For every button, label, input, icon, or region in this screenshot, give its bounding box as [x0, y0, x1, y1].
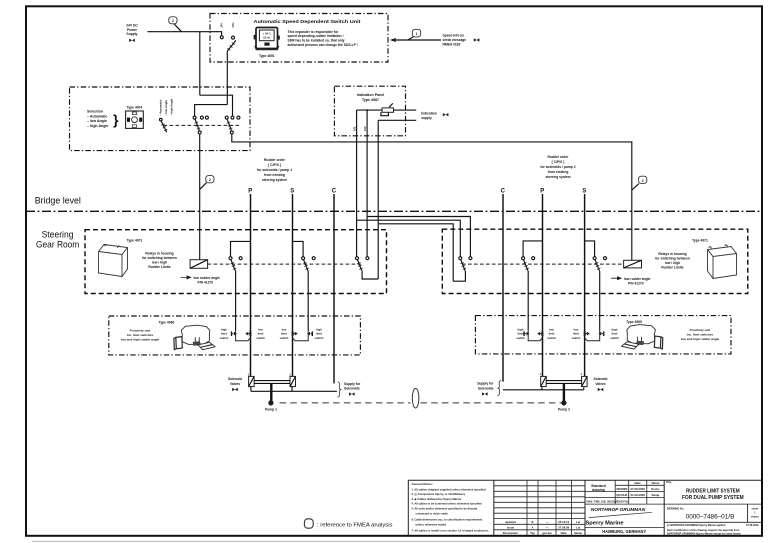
selection bus wire A: [200, 95, 233, 116]
svg-text:NORTHROP GRUMMAN: NORTHROP GRUMMAN: [591, 507, 646, 512]
svg-text:low rudder angle: low rudder angle: [194, 276, 221, 280]
svg-text:for solenoids / pump 2: for solenoids / pump 2: [540, 165, 575, 169]
relay coil K1: [190, 260, 208, 269]
svg-text:DRAWN: DRAWN: [616, 487, 627, 491]
svg-text:Type 4971: Type 4971: [692, 238, 708, 242]
steering gear room label: [36, 230, 80, 250]
svg-text:low / high: low / high: [665, 261, 680, 265]
svg-text:switch: switch: [256, 336, 265, 340]
svg-text:P: P: [540, 188, 544, 194]
svg-text:12.4o: 12.4o: [263, 35, 270, 39]
svg-text:low rudder angle: low rudder angle: [624, 277, 651, 281]
selection mode label: [87, 109, 119, 128]
supply for solenoids label (stbd): [477, 380, 501, 396]
svg-text:NORTHROP GRUMMAN Sperry Marine: NORTHROP GRUMMAN Sperry Marine except as…: [667, 532, 741, 535]
svg-text:0000–7486–01/B: 0000–7486–01/B: [686, 514, 735, 521]
indication supply label: [421, 111, 448, 120]
svg-text:speed depending rudder limitat: speed depending rudder limitation !: [288, 34, 344, 38]
relay contact A (port P): [229, 241, 251, 271]
svg-text:Rudder order: Rudder order: [548, 155, 570, 159]
FMEA reference note: [304, 519, 392, 529]
limit switch contact pair low limit (pump2 S): [584, 331, 605, 341]
svg-text:unless otherwise stated: unless otherwise stated: [416, 522, 447, 526]
svg-text:sheets: sheets: [751, 516, 760, 519]
wire junction to selection switch bus: [199, 32, 201, 95]
selection unit dashed enclosure: [70, 87, 251, 151]
wire panel branch b1 to stbd room: [367, 217, 470, 257]
svg-text:Rudder order: Rudder order: [264, 158, 286, 162]
wire S pump2: [584, 194, 586, 376]
wire indication supply return: [378, 119, 416, 121]
wire lamp to indication supply: [394, 109, 417, 111]
svg-text:Lie: Lie: [576, 520, 580, 524]
svg-text:A: A: [531, 525, 533, 529]
wire selector sw2 to relay K2: [232, 134, 632, 260]
svg-text:from existing: from existing: [548, 170, 569, 174]
svg-text:Valves: Valves: [230, 382, 240, 386]
24V DC power supply source label: [126, 24, 138, 42]
svg-text:Bridge level: Bridge level: [35, 196, 81, 207]
svg-text:switch: switch: [315, 336, 324, 340]
selector rotary contact: [160, 118, 168, 132]
wire panel riser 3: [377, 120, 379, 279]
pump 1: [265, 400, 277, 411]
svg-text:27.08.2009: 27.08.2009: [746, 524, 759, 527]
low rudder angle note (stbd): [611, 277, 651, 286]
wire contact B' to limit switch: [527, 271, 529, 331]
svg-text:P/N 41270: P/N 41270: [198, 281, 214, 285]
wire contact A to limit switch: [235, 271, 237, 331]
wire C pump2: [502, 194, 504, 382]
wire panel riser 2: [366, 110, 368, 257]
svg-text:}: }: [113, 112, 119, 128]
svg-text:Lie: Lie: [576, 525, 580, 529]
node callout 2 (supply wire): [169, 17, 182, 32]
svg-text:1: 1: [416, 32, 418, 36]
svg-text:Samp: Samp: [651, 493, 659, 497]
svg-text:SDR has to be installed so, th: SDR has to be installed so, that only: [288, 39, 345, 43]
general notes: [412, 482, 489, 533]
svg-text:drawing: drawing: [592, 488, 605, 492]
svg-text:authorized persons can change: authorized persons can change the SDS-LP…: [288, 43, 358, 47]
svg-text:from existing: from existing: [264, 173, 285, 177]
svg-text:[ C/P/S ]: [ C/P/S ]: [268, 163, 281, 167]
relay housing icon Type 4971 (port): [99, 239, 143, 277]
svg-text:NMEA 0183: NMEA 0183: [443, 43, 461, 47]
svg-text:Solenoids: Solenoids: [344, 387, 360, 391]
svg-text:Relays in housing: Relays in housing: [658, 252, 686, 256]
svg-text:—: —: [546, 520, 549, 524]
svg-text:Issue: Issue: [507, 525, 515, 529]
wire C pump1: [333, 194, 335, 383]
svg-text:5. All units and/or otherwise: 5. All units and/or otherwise specified …: [412, 507, 478, 511]
standard drawing cells: [585, 480, 762, 527]
svg-text:7. All cables to install cros: 7. All cables to install cross section 1…: [412, 529, 489, 533]
svg-text:—: —: [546, 525, 549, 529]
wire 24V supply to ASDSU: [148, 32, 222, 36]
svg-text:01.09.2009: 01.09.2009: [630, 493, 645, 497]
svg-text:Name: Name: [574, 531, 582, 535]
svg-text:updated: updated: [505, 520, 516, 524]
wire solenoid supply bus (pump1): [251, 387, 337, 392]
indication panel title: [357, 93, 385, 102]
svg-text:Type 4969: Type 4969: [626, 320, 642, 324]
rudder order pump1 label: [257, 158, 292, 182]
svg-text:Pump 2: Pump 2: [558, 408, 570, 412]
svg-text:Relays in housing: Relays in housing: [145, 252, 173, 256]
svg-text:Indication Panel: Indication Panel: [357, 93, 385, 97]
svg-text:2. ◫ Components Sperry, or: 2. ◫ Components Sperry, or Yard/Delivery: [412, 492, 466, 496]
rudder order pump2 label: [540, 155, 575, 179]
svg-text:Indication: Indication: [421, 111, 437, 115]
svg-text:Proximity unit: Proximity unit: [130, 328, 151, 332]
svg-text:C: C: [501, 188, 506, 194]
solenoid valve V4 (pump2 stbd): [581, 372, 587, 386]
svg-text:27.08.09: 27.08.09: [558, 525, 569, 529]
svg-text:Pump 1: Pump 1: [265, 408, 277, 412]
svg-text:– low Angle: – low Angle: [164, 100, 168, 116]
svg-text:101: 101: [353, 126, 357, 131]
selector head icon Type 4974: [126, 105, 144, 128]
svg-text:for switching between: for switching between: [655, 257, 690, 261]
node junction dot: [366, 109, 368, 111]
svg-text:Description: Description: [503, 531, 519, 535]
revision table: [494, 480, 585, 536]
relay housing icon Type 4971 (stbd): [692, 238, 736, 278]
svg-text:1: 1: [581, 372, 583, 376]
mechanical link K2 to contacts (stbd): [462, 263, 624, 265]
ASDSU input contact: [220, 36, 223, 39]
solenoid valve V1 (pump1 port): [248, 372, 255, 386]
svg-text:S: S: [290, 188, 294, 194]
supply for solenoids label (port): [338, 382, 361, 398]
steering room stbd enclosure: [442, 229, 748, 293]
svg-text:sheet: sheet: [752, 508, 759, 511]
selector switch contact 1: [193, 116, 208, 134]
relay contact B (port S): [293, 241, 316, 271]
svg-text:Typ: Typ: [530, 531, 535, 535]
proximity sensor icon (port): [174, 325, 215, 350]
steering room port enclosure: [85, 230, 387, 294]
svg-text:Type 4969: Type 4969: [159, 321, 175, 325]
wire panel riser 1: [356, 110, 358, 257]
wire P pump1: [250, 194, 252, 376]
svg-text:switch: switch: [220, 336, 229, 340]
speed info callout arrow: [390, 38, 441, 42]
svg-text:2: 2: [209, 178, 211, 182]
indication panel dashed enclosure: [334, 86, 405, 136]
relay housing note (port): [142, 252, 177, 270]
panel wire labels (vertical): [353, 126, 368, 131]
ASDSU note text: [288, 30, 358, 47]
svg-text:QC/CHK: QC/CHK: [616, 493, 628, 497]
svg-text:B: B: [531, 520, 533, 524]
svg-text:Type 4987: Type 4987: [362, 98, 379, 102]
svg-text:Supply: Supply: [127, 32, 138, 36]
selector switch contact 2: [225, 116, 240, 134]
pump 2: [558, 400, 570, 411]
svg-text:Name: Name: [651, 481, 659, 485]
svg-text:switch: switch: [280, 336, 289, 340]
revision table entries: [503, 520, 583, 535]
mechanical link K1 to contacts (port): [208, 263, 361, 265]
wire panel branch b3 to stbd room: [378, 224, 453, 281]
svg-text:RUDDER LIMIT SYSTEM: RUDDER LIMIT SYSTEM: [686, 488, 740, 494]
ASDSU terminal labels (vertical): [220, 22, 235, 27]
svg-text:1: 1: [289, 372, 291, 376]
svg-text:gez.am: gez.am: [542, 531, 552, 535]
solenoid valve V3 (pump2 port): [540, 372, 546, 386]
valve manifold pump1: [254, 381, 290, 384]
svg-text:Type 4971: Type 4971: [127, 239, 143, 243]
wire S pump1: [292, 194, 294, 376]
relay coil K2: [624, 260, 642, 268]
low rudder angle note (port): [181, 276, 221, 285]
svg-text:0000_7486_01B_002.DWG: 0000_7486_01B_002.DWG: [587, 499, 619, 503]
title block outline: [408, 480, 762, 536]
valve manifold pump2: [546, 381, 581, 384]
svg-text:Type 4691: Type 4691: [259, 54, 275, 58]
svg-text:Speed info as: Speed info as: [443, 33, 465, 37]
svg-text:2: 2: [642, 179, 644, 183]
svg-text:P/N 41270: P/N 41270: [628, 281, 644, 285]
solenoid valves label (stbd): [594, 377, 608, 391]
svg-text:switch: switch: [610, 336, 619, 340]
proximity unit note (stbd): [681, 328, 720, 341]
drawing title: [666, 480, 744, 501]
svg-text:HAMBURG, GERMANY: HAMBURG, GERMANY: [602, 529, 646, 535]
svg-text:Automatic Speed Dependent Swit: Automatic Speed Dependent Switch Unit: [254, 19, 361, 25]
proximity unit note (port): [121, 328, 160, 341]
wire contact A' to limit switch: [599, 271, 601, 331]
speed info label: [443, 33, 480, 46]
svg-text:C: C: [332, 188, 337, 194]
svg-text:– Automatic: – Automatic: [87, 114, 107, 118]
ASDSU switch contact (speed dependent): [227, 36, 236, 51]
svg-text:1. All cables shipyard suppli: 1. All cables shipyard supplied unless o…: [412, 487, 486, 491]
relay contact B' (stbd P): [522, 241, 543, 271]
svg-text:supply: supply: [421, 116, 432, 120]
svg-text:steering system: steering system: [262, 178, 287, 182]
svg-text:– high Angle: – high Angle: [87, 124, 108, 128]
limit switch contact pair high limit (pump1 P): [231, 331, 252, 341]
svg-text:CAD-File: CAD-File: [617, 499, 629, 503]
svg-text:Steering: Steering: [42, 230, 74, 240]
wire solenoid supply bus (pump2): [503, 387, 584, 390]
svg-text:Solenoid: Solenoid: [594, 377, 608, 381]
svg-text:Date: Date: [561, 531, 568, 535]
copyright note: [667, 523, 759, 535]
svg-text:4. All cables to be screened: 4. All cables to be screened unless othe…: [412, 502, 482, 506]
indicator lamp resistor element: [381, 103, 394, 115]
svg-text:Solenoids: Solenoids: [478, 386, 494, 390]
proximity unit stbd enclosure: [475, 316, 731, 354]
Northrop Grumman logotype: [586, 507, 653, 526]
solenoid valve V2 (pump1 stbd): [289, 372, 295, 386]
svg-text:FOR DUAL PUMP SYSTEM: FOR DUAL PUMP SYSTEM: [682, 495, 744, 501]
svg-text:for switching between: for switching between: [142, 256, 177, 260]
svg-text:24V: 24V: [220, 23, 224, 28]
svg-text:[ C/P/S ]: [ C/P/S ]: [552, 160, 565, 164]
coupling break ellipse: [412, 388, 419, 408]
drawing number cell: [664, 504, 762, 522]
ASDSU dashed enclosure: [210, 14, 388, 63]
svg-text:for solenoids / pump 1: for solenoids / pump 1: [257, 168, 292, 172]
svg-text:Ⓒ NORTHROP GRUMMAN Sperry Mar: Ⓒ NORTHROP GRUMMAN Sperry Marine applied: [667, 523, 726, 527]
bridge level divider: [26, 196, 762, 212]
svg-text:P: P: [248, 188, 252, 194]
svg-text:Sperry Marine: Sperry Marine: [586, 520, 624, 526]
svg-text:27.08.2009: 27.08.2009: [630, 487, 645, 491]
relay housing note (stbd): [655, 252, 690, 270]
svg-text:Krebs: Krebs: [651, 487, 660, 491]
svg-text:– low Angle: – low Angle: [87, 119, 107, 123]
svg-text:2: 2: [172, 19, 174, 23]
svg-text:inc. limit switches: inc. limit switches: [127, 333, 154, 337]
svg-text:6. Cable dimensions acc. to c: 6. Cable dimensions acc. to classificati…: [412, 518, 483, 522]
svg-text:Supply for: Supply for: [344, 382, 361, 386]
svg-text:serial message: serial message: [443, 38, 467, 42]
selector position labels (vertical): [159, 98, 174, 116]
solenoid valves label (port): [228, 377, 242, 391]
wire selector sw1 to relay K1: [199, 134, 201, 260]
svg-text:Title: Title: [666, 480, 672, 484]
svg-text:05.10.10: 05.10.10: [558, 520, 569, 524]
svg-text:– Automatic: – Automatic: [159, 99, 163, 116]
svg-text:low and high rudder angle: low and high rudder angle: [681, 337, 720, 341]
limit switch contact pair high limit (pump2 P): [523, 331, 543, 341]
node callout 1 (speed info): [408, 29, 421, 40]
svg-text:102: 102: [363, 126, 367, 131]
wire P pump2: [542, 194, 544, 376]
svg-text:24V-: 24V-: [231, 22, 235, 27]
relay contact C (port panel): [356, 257, 379, 279]
svg-text:connected to ship's earth: connected to ship's earth: [416, 511, 449, 515]
proximity unit port enclosure: [109, 316, 361, 355]
svg-text:Date: Date: [634, 481, 641, 485]
svg-text:low and high rudder angle: low and high rudder angle: [121, 338, 160, 342]
svg-text:Proximity unit: Proximity unit: [690, 328, 711, 332]
svg-text:General Notes:: General Notes:: [412, 482, 433, 486]
svg-text:inc. limit switches: inc. limit switches: [687, 333, 714, 337]
svg-text:low / high: low / high: [152, 261, 167, 265]
svg-text:switch: switch: [572, 336, 581, 340]
svg-text:This expander is responsible f: This expander is responsible for: [288, 30, 339, 34]
svg-text:DRAWING No.: DRAWING No.: [667, 506, 685, 510]
svg-text:Selection: Selection: [87, 109, 103, 113]
proximity sensor icon (stbd): [622, 325, 663, 350]
svg-text:Rudder Limits: Rudder Limits: [148, 265, 170, 269]
svg-text:Gear Room: Gear Room: [36, 240, 80, 250]
wire panel branch b2 to stbd room: [357, 220, 461, 257]
ASDSU device icon Type 4691: [254, 28, 280, 50]
svg-text:1: 1: [754, 512, 756, 515]
node callout 2 (left riser): [200, 176, 214, 190]
svg-text:1: 1: [248, 372, 250, 376]
svg-text:steering system: steering system: [545, 175, 570, 179]
svg-text:switch: switch: [547, 336, 556, 340]
wire panel bus left: [357, 109, 382, 111]
mechanical coupling pumps dashed (right): [421, 402, 562, 404]
svg-text:Rudder Limits: Rudder Limits: [661, 266, 683, 270]
svg-text:Solenoid: Solenoid: [228, 377, 242, 381]
svg-text:Valves: Valves: [595, 382, 605, 386]
relay contact A' (stbd S): [585, 241, 607, 271]
selection bus wire B: [195, 105, 228, 116]
svg-text:3. ◆ Cables delivered by Sp: 3. ◆ Cables delivered by Sperry Marine: [412, 497, 462, 501]
wire contact B to limit switch: [307, 271, 309, 331]
standard drawing entries: [587, 481, 660, 503]
pump 2 drive shaft: [563, 383, 565, 400]
node callout 2 (right riser): [632, 176, 647, 190]
svg-text:S: S: [582, 188, 586, 194]
relay contact C' (stbd panel): [453, 257, 472, 282]
mechanical coupling pumps dashed: [280, 402, 411, 404]
svg-text:switch: switch: [516, 336, 525, 340]
limit switch contact pair low limit (pump1 S): [292, 331, 313, 341]
svg-text:Supply for: Supply for: [477, 382, 494, 386]
wire ASDSU switch to selection bus: [226, 51, 228, 104]
svg-text:– high Angle: – high Angle: [170, 98, 174, 116]
pump 1 drive shaft: [270, 383, 272, 400]
svg-text:1: 1: [540, 372, 542, 376]
svg-text:Type 4974: Type 4974: [127, 105, 143, 109]
mechanical link selector to switches: [164, 124, 240, 126]
svg-text:: reference to FMEA analysis: : reference to FMEA analysis: [317, 522, 393, 528]
